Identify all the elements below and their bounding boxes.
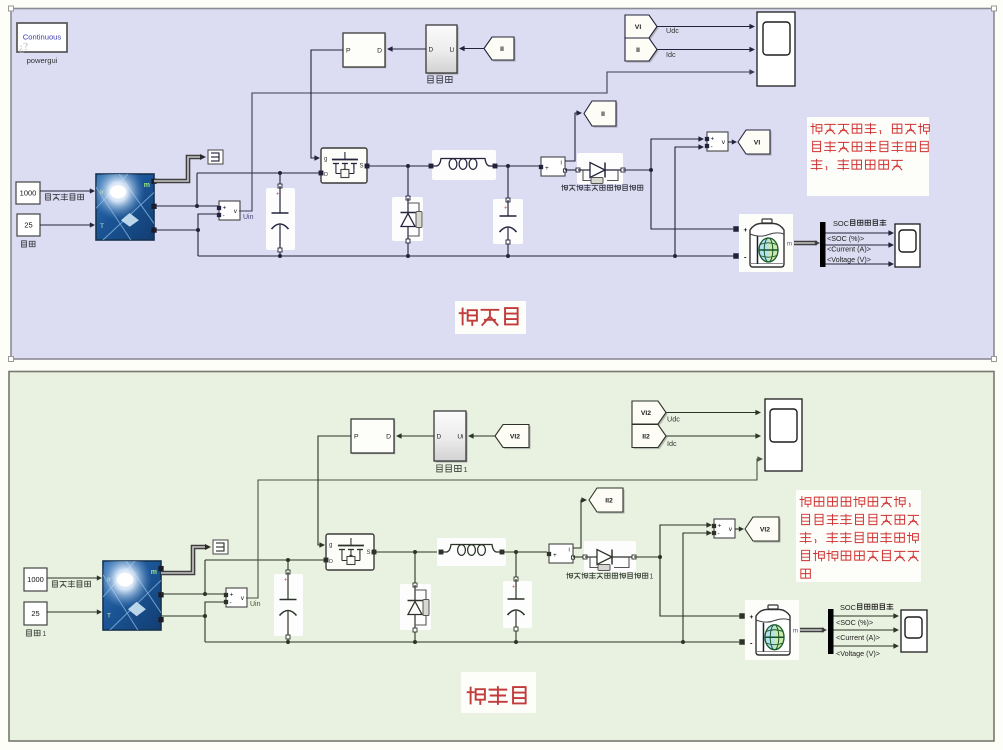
node output junction	[649, 168, 653, 172]
node C1 top	[278, 171, 282, 175]
wire VI meter to VI goto tag	[728, 141, 734, 143]
wire top rail to MOSFET D	[197, 172, 319, 174]
wire junction down to bottom rail	[197, 230, 199, 256]
wire PWM P output to MOSFET gate panel2	[318, 436, 351, 545]
from tag II (to controller)	[486, 39, 516, 62]
capacitor C2 output panel2	[503, 581, 532, 628]
from tag VI to scope	[627, 17, 659, 40]
wire VI2 meter to VI2 goto tag	[735, 528, 741, 530]
inductor L1	[432, 150, 496, 180]
svg-text:m: m	[793, 628, 798, 635]
svg-text:II: II	[636, 47, 640, 54]
wire sensor current signal to II goto tag	[565, 113, 579, 161]
svg-text:g: g	[324, 157, 327, 163]
wire bus SOC to scope	[826, 232, 892, 234]
node PV plus junction panel2	[203, 592, 207, 596]
node PV minus junction	[196, 228, 200, 232]
svg-text:-: -	[223, 212, 225, 219]
wire PV minus	[154, 229, 198, 231]
svg-text:Idc: Idc	[666, 50, 676, 59]
svg-text:m: m	[787, 241, 792, 248]
wire MOSFET S to inductor	[369, 165, 429, 167]
label kongzhiqi (controller)	[428, 76, 433, 83]
wire D2 to output node	[623, 169, 651, 171]
wire 1000 to PV Ir input	[40, 190, 92, 192]
capacitor C2 (output)	[493, 199, 523, 244]
wire bottom rail tap to VI2 meter minus	[683, 533, 709, 642]
powergui block	[17, 23, 67, 52]
svg-text:II2: II2	[605, 498, 613, 505]
wire junction up to top rail	[196, 173, 198, 206]
red annotation text (constant current note)	[807, 117, 929, 196]
from tag II2 to scope	[634, 426, 668, 449]
battery m output bus to bus selector panel2	[800, 628, 824, 633]
wire node down to capacitor C2	[507, 166, 509, 198]
constant block 25 (temperature) panel2	[24, 602, 47, 625]
svg-text:II: II	[601, 111, 605, 118]
svg-text:+: +	[223, 205, 227, 212]
wire controller D output to PWM D input	[389, 48, 426, 50]
svg-text:+: +	[284, 578, 288, 584]
svg-text:+: +	[230, 592, 234, 599]
svg-text:1000: 1000	[27, 575, 44, 584]
svg-text:-: -	[711, 143, 713, 150]
svg-text:1000: 1000	[20, 189, 37, 198]
MOSFET switch block	[321, 148, 367, 183]
battery block panel2	[745, 600, 799, 660]
wire controller D output to PWM D input panel2	[398, 435, 434, 437]
from tag VI2 to scope	[634, 403, 668, 426]
MOSFET S port	[365, 164, 369, 168]
svg-text:1: 1	[464, 465, 468, 474]
node C1 bottom	[278, 254, 282, 258]
svg-text:S: S	[359, 164, 363, 170]
wire node to VI meter plus	[651, 139, 701, 170]
wire D1 to bottom rail	[407, 243, 409, 256]
svg-text:25: 25	[31, 609, 39, 618]
scope block (panel2 top right)	[765, 399, 802, 471]
wire bus Current to scope	[826, 244, 892, 246]
node output capacitor top panel2	[514, 550, 518, 554]
wire bus SOC to scope panel2	[834, 615, 897, 617]
goto tag II (inductor current)	[586, 103, 618, 128]
svg-text:II: II	[500, 46, 504, 53]
bottom rail wire	[198, 255, 734, 257]
svg-text:1: 1	[650, 574, 654, 581]
wire node down to capacitor panel2	[515, 552, 517, 577]
svg-text:<Current (A)>: <Current (A)>	[836, 633, 880, 642]
wire top rail to C1 panel2	[287, 560, 289, 570]
wire VI2 tag to controller Ui input	[470, 435, 495, 437]
svg-text:<Voltage (V)>: <Voltage (V)>	[827, 255, 871, 264]
series diode D2 with snubber (anti-backflow)	[577, 153, 623, 184]
goto tag II2 (inductor current)	[591, 490, 625, 514]
svg-text:m: m	[144, 182, 150, 189]
wire node down to battery plus	[651, 170, 733, 229]
wire node down to battery plus panel2	[660, 557, 739, 616]
svg-text:+: +	[744, 227, 748, 234]
bus selector	[820, 222, 826, 267]
wire junction down to bottom rail panel2	[204, 616, 206, 642]
svg-text:-: -	[230, 599, 232, 606]
MOSFET D port panel2	[324, 558, 328, 562]
freewheel diode D1 with snubber	[392, 197, 423, 241]
wire II2 tag to scope input 2	[666, 435, 758, 437]
panel 2 background (constant voltage model)	[9, 372, 994, 742]
svg-text:VI2: VI2	[510, 434, 520, 441]
bottom rail wire panel2	[205, 641, 739, 643]
svg-text:T: T	[107, 613, 111, 620]
svg-text:Udc: Udc	[667, 415, 680, 424]
wire junction to Uin minus panel2	[205, 602, 226, 616]
svg-text:¿?: ¿?	[18, 41, 29, 54]
svg-text:SOC: SOC	[833, 219, 850, 228]
battery minus port panel2	[740, 640, 745, 645]
wire 25 to PV T input	[40, 224, 92, 226]
wire node to VI2 meter plus	[660, 525, 709, 557]
node freewheel diode top panel2	[413, 550, 417, 554]
wire diode to bottom rail panel2	[414, 632, 416, 642]
svg-text:VI2: VI2	[641, 410, 651, 417]
capacitor C1 (input)	[266, 188, 295, 250]
PV array m-output bus to terminator panel2	[161, 547, 206, 573]
battery plus port panel2	[740, 614, 745, 619]
wire sensor out to diode D2	[565, 169, 577, 171]
scope block battery panel2	[901, 610, 927, 652]
svg-text:Udc: Udc	[666, 26, 679, 35]
svg-text:<Voltage (V)>: <Voltage (V)>	[836, 649, 880, 658]
battery block	[739, 214, 793, 272]
svg-text:VI: VI	[754, 140, 761, 147]
node C1 top panel2	[286, 558, 290, 562]
svg-text:+: +	[512, 585, 516, 591]
svg-text:D: D	[329, 559, 333, 565]
wire C1 to bottom rail	[279, 252, 281, 256]
svg-text:powergui: powergui	[27, 56, 58, 65]
wire sensor current signal to II2 goto tag	[573, 500, 584, 548]
wire II tag to controller Li input	[461, 48, 484, 50]
scope block (top right)	[757, 12, 795, 86]
svg-text:Ui: Ui	[457, 434, 463, 441]
svg-text:Li: Li	[449, 47, 454, 54]
svg-text:II2: II2	[642, 434, 650, 441]
voltage measurement block VI	[707, 132, 728, 151]
MOSFET switch block panel2	[326, 534, 374, 570]
wire VI tag to scope input 1	[657, 26, 752, 28]
from tag II to scope	[627, 40, 659, 63]
node output junction panel2	[658, 555, 662, 559]
wire junction up to top rail panel2	[204, 560, 206, 594]
svg-text:Continuous: Continuous	[23, 33, 62, 42]
series diode with snubber panel2 (anti-backflow)	[584, 541, 636, 572]
node PV plus junction	[195, 204, 199, 208]
wire node down to diode D1	[407, 166, 409, 196]
svg-text:Uin: Uin	[243, 214, 254, 221]
MOSFET S port panel2	[372, 550, 376, 554]
label xuliu erjiguan fangzhi fanxiang fangdian	[562, 185, 568, 191]
svg-text:P: P	[346, 48, 351, 55]
node diode bottom rail panel2	[413, 640, 417, 644]
title hengliufa (constant current method)	[455, 301, 526, 334]
label wendu (temperature)	[22, 241, 27, 247]
terminator block (measurement bus)	[208, 150, 223, 164]
wire C2 to bottom rail	[507, 244, 509, 256]
goto tag VI2 (battery voltage)	[747, 519, 781, 543]
panel 1 background (constant current model)	[11, 9, 994, 360]
svg-text:+: +	[711, 136, 715, 143]
node C2 bottom rail	[506, 254, 510, 258]
svg-text:<Current (A)>: <Current (A)>	[827, 245, 871, 254]
title hengyafa (constant voltage method)	[461, 672, 536, 713]
svg-text:+: +	[276, 192, 280, 198]
voltage measurement block Uin panel2	[226, 588, 247, 607]
wire bus Voltage to scope panel2	[834, 645, 897, 647]
svg-text:-: -	[718, 530, 720, 537]
label irradiance panel2	[53, 581, 58, 587]
svg-text:D: D	[377, 48, 382, 55]
svg-text:T: T	[100, 223, 104, 230]
wire Uin v-output to scope (PV voltage signal)	[239, 72, 752, 211]
svg-text:+: +	[750, 614, 754, 621]
wire bus Voltage to scope	[826, 263, 892, 265]
svg-text:S: S	[366, 550, 370, 556]
capacitor C1 input panel2	[274, 574, 303, 636]
svg-text:+: +	[545, 165, 549, 172]
svg-text:25: 25	[24, 221, 32, 230]
node C2 bottom rail panel2	[514, 640, 518, 644]
node D1 bottom rail	[406, 254, 410, 258]
svg-text:D: D	[437, 434, 442, 441]
node output capacitor top	[506, 164, 510, 168]
wire PV minus panel2	[161, 615, 205, 617]
wire C1 to bottom rail panel2	[287, 639, 289, 642]
svg-text:VI2: VI2	[760, 527, 770, 534]
svg-text:m: m	[151, 569, 157, 576]
voltage measurement block VI2	[714, 519, 735, 538]
current measurement sensor	[541, 157, 565, 176]
scope block (battery signals)	[895, 224, 920, 267]
svg-text:+: +	[553, 552, 557, 559]
svg-text:D: D	[324, 172, 328, 178]
svg-text:i: i	[560, 161, 561, 167]
bus selector panel2	[828, 609, 834, 654]
svg-text:SOC: SOC	[840, 603, 857, 612]
PWM generator block P-D	[344, 34, 386, 68]
wire diode to output node panel2	[634, 556, 660, 558]
svg-text:P: P	[354, 434, 359, 441]
wire top rail to C1	[279, 173, 281, 184]
inductor panel2	[437, 538, 506, 566]
freewheel diode with snubber panel2	[400, 584, 431, 630]
constant block 1000 (irradiance) panel2	[24, 568, 47, 591]
svg-text:D: D	[429, 47, 434, 54]
battery m output bus to bus selector	[794, 241, 817, 246]
label anti-backflow diode panel2	[567, 573, 573, 579]
constant block 1000 (irradiance)	[16, 182, 40, 204]
wire top rail to MOSFET D panel2	[205, 559, 324, 561]
wire inductor to current sensor	[497, 165, 539, 167]
wire PWM P output to MOSFET gate	[311, 50, 343, 158]
from tag VI2 (to controller)	[497, 426, 531, 449]
wire junction to Uin minus	[198, 214, 219, 230]
wire inductor to current sensor panel2	[502, 551, 547, 553]
svg-text:+: +	[504, 206, 508, 212]
wire PV plus panel2	[161, 593, 226, 595]
svg-text:+: +	[718, 523, 722, 530]
wire node down to diode panel2	[414, 552, 416, 583]
wire bottom rail tap to VI meter minus	[675, 147, 701, 256]
wire C2 to bottom rail panel2	[515, 631, 517, 642]
wire VI2 tag to scope input 1	[666, 412, 758, 414]
svg-text:g: g	[329, 543, 332, 549]
PWM generator block P-D panel2	[352, 420, 395, 454]
label kongzhiqi1 (controller1)	[437, 465, 442, 472]
svg-text:<SOC (%)>: <SOC (%)>	[836, 618, 873, 627]
MOSFET D port	[319, 171, 323, 175]
svg-text:i: i	[568, 548, 569, 554]
label wendu1 (temperature1)	[27, 630, 32, 636]
node freewheel diode top	[406, 164, 410, 168]
voltage measurement block Uin	[219, 201, 240, 220]
terminator block panel2	[213, 540, 228, 554]
goto tag VI (battery voltage)	[740, 132, 772, 156]
wire MOSFET S to inductor panel2	[376, 551, 439, 553]
wire 25 to PV T panel2	[47, 611, 99, 613]
constant block 25 (temperature)	[17, 214, 40, 236]
wire II tag to scope input 2	[657, 49, 752, 51]
svg-text:VI: VI	[635, 24, 642, 31]
node minus tap panel2	[681, 640, 685, 644]
wire bus Current to scope panel2	[834, 629, 897, 631]
MOSFET g input arrow panel2	[319, 542, 325, 548]
wire PV plus to input node	[154, 205, 219, 207]
svg-text:D: D	[386, 434, 391, 441]
wire 1000 to PV Ir panel2	[47, 577, 99, 579]
current measurement sensor panel2	[549, 544, 573, 563]
svg-text:Idc: Idc	[667, 439, 677, 448]
svg-text:<SOC (%)>: <SOC (%)>	[827, 234, 864, 243]
red annotation text (mode switch note)	[796, 490, 921, 582]
MOSFET g input arrow	[314, 155, 320, 161]
node C1 bottom panel2	[286, 640, 290, 644]
PV array m-output bus to terminator	[154, 157, 201, 181]
label yangguang fuzhaodu (irradiance)	[46, 194, 51, 200]
battery minus port	[734, 254, 739, 259]
wire sensor out to series diode panel2	[573, 556, 584, 558]
svg-text:Uin: Uin	[250, 601, 261, 608]
svg-text:1: 1	[42, 631, 46, 638]
battery plus port	[734, 227, 739, 232]
node minus tap	[673, 254, 677, 258]
wire Uin v-output to scope panel2	[246, 459, 760, 598]
node PV minus junction panel2	[203, 614, 207, 618]
